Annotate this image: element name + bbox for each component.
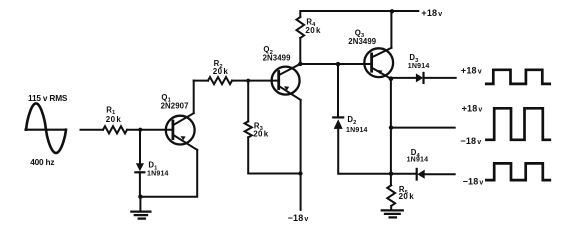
wire node to R3 <box>247 81 249 122</box>
node junction Q3 emitter <box>389 76 394 81</box>
wire Q3 emitter down <box>390 79 392 186</box>
svg-text:2N2907: 2N2907 <box>161 102 189 111</box>
node junction output 2 takeoff <box>389 125 393 129</box>
svg-text:2N3499: 2N3499 <box>263 53 291 62</box>
svg-text:20 k: 20 k <box>253 129 269 138</box>
wire D4 to output 3 <box>425 173 455 175</box>
wire emitter to D3 <box>391 77 416 79</box>
resistor R3 <box>245 121 252 137</box>
wire node to ground <box>139 197 141 211</box>
wire output 2 <box>391 127 455 129</box>
svg-text:+18 v: +18 v <box>421 8 442 18</box>
svg-text:400 hz: 400 hz <box>30 157 54 167</box>
svg-text:−18 v: −18 v <box>288 213 309 223</box>
transistor Q3 <box>364 48 393 79</box>
diode D1 <box>136 163 144 171</box>
wire D3 to output 1 <box>424 77 456 79</box>
wire D2 to lower rail <box>338 129 416 174</box>
node junction lower rail crossing <box>389 172 393 176</box>
svg-text:1N914: 1N914 <box>408 63 430 70</box>
svg-text:+18 v: +18 v <box>461 65 482 75</box>
wire R1 to Q1 base <box>127 129 173 131</box>
node junction R2/R3 <box>246 79 250 83</box>
svg-text:115 v RMS: 115 v RMS <box>28 93 68 103</box>
svg-text:−18 v: −18 v <box>463 176 484 186</box>
wire node to R4 <box>299 38 301 64</box>
svg-text:20 k: 20 k <box>106 115 122 124</box>
wire collector to R2 <box>194 80 208 82</box>
wire Q3 collector up <box>390 11 392 48</box>
svg-text:1N914: 1N914 <box>346 127 368 134</box>
svg-text:20 k: 20 k <box>399 192 415 201</box>
ground G2 <box>382 210 403 217</box>
waveform output 1 square wave <box>486 70 549 84</box>
wire R3 bottom to -18v rail <box>248 137 300 173</box>
svg-text:20 k: 20 k <box>305 26 321 35</box>
svg-text:1N914: 1N914 <box>407 157 429 164</box>
node junction D1/emitter/ground <box>138 195 142 199</box>
node junction R1/D1 <box>138 128 142 132</box>
wire Q3 base <box>300 63 371 65</box>
transistor Q1 <box>166 113 197 150</box>
resistor R2 <box>208 77 232 84</box>
wire source to R1 <box>81 129 104 131</box>
wire Q2 emitter down to -18v <box>300 100 302 210</box>
resistor R5 <box>387 185 395 206</box>
wire R5 to ground <box>390 206 392 210</box>
ground G1 <box>131 212 150 219</box>
source V1 sine symbol <box>26 129 66 131</box>
wire R4 top / +18v rail <box>300 11 418 17</box>
svg-text:−18 v: −18 v <box>460 136 481 146</box>
svg-text:D2: D2 <box>347 115 356 126</box>
svg-text:2N3499: 2N3499 <box>348 37 376 46</box>
transistor Q2 <box>272 64 301 100</box>
wire Q1 emitter return <box>140 150 197 197</box>
wire D1 to ground node <box>139 172 141 196</box>
waveform output 3 square wave <box>486 163 549 180</box>
node junction R3/Q2 emitter line <box>298 171 302 175</box>
diode D3 <box>416 73 423 82</box>
wire node to D1 <box>139 130 141 164</box>
diode D2 <box>333 116 343 118</box>
node junction D2 on base wire <box>336 62 340 66</box>
resistor R1 <box>103 126 127 133</box>
svg-text:1N914: 1N914 <box>147 171 169 178</box>
diode D4 <box>416 169 418 180</box>
wire R2 to Q2 base <box>232 80 279 82</box>
svg-text:20 k: 20 k <box>213 67 229 76</box>
wire node to D2 <box>337 64 339 117</box>
waveform output 2 square wave <box>486 108 549 140</box>
wire Q1 collector up <box>193 81 195 114</box>
resistor R4 <box>297 17 305 38</box>
node junction Q2 collector / R4 / Q3 base <box>298 62 302 66</box>
node junction Q3 collector on +18v rail <box>390 9 394 13</box>
svg-text:+18 v: +18 v <box>462 104 483 114</box>
